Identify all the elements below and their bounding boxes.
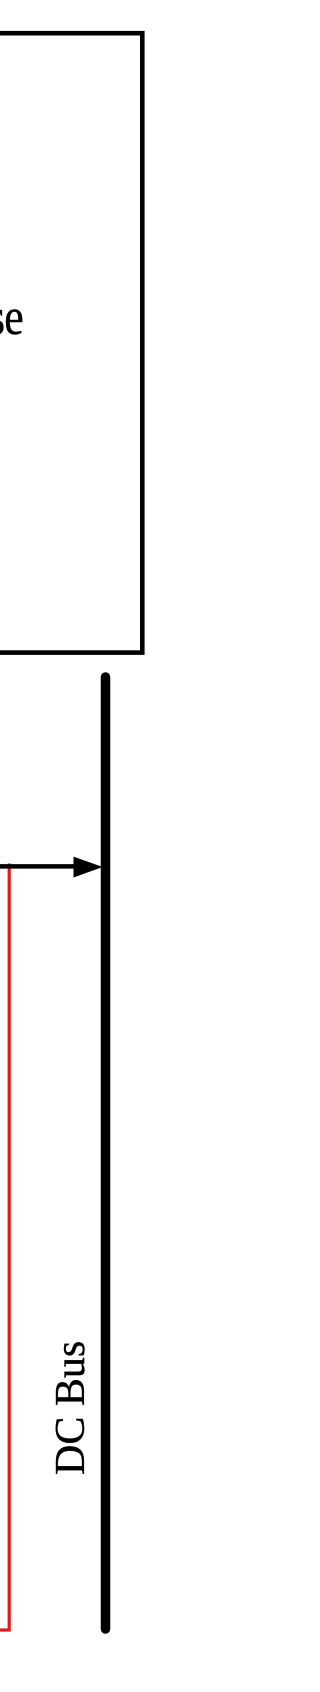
svg-text:DC Bus: DC Bus (48, 1341, 94, 1475)
svg-text:e: e (4, 289, 23, 346)
